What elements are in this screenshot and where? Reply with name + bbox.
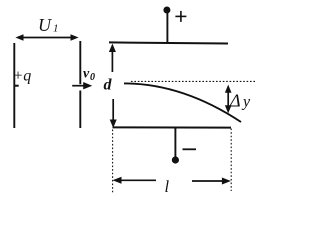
small tick on left plate bbox=[14, 85, 19, 87]
svg-text:U: U bbox=[38, 15, 52, 35]
right accelerating plate upper segment bbox=[79, 41, 81, 84]
plate length dimension l: left arrow bbox=[113, 177, 157, 184]
bottom plate terminal stub wire bbox=[174, 128, 176, 158]
svg-text:l: l bbox=[165, 177, 170, 196]
undeflected reference dotted line bbox=[131, 80, 256, 82]
svg-text:y: y bbox=[241, 93, 251, 110]
bottom deflecting plate bbox=[113, 126, 232, 128]
svg-text:0: 0 bbox=[90, 72, 95, 83]
right dotted extension line below plates bbox=[230, 129, 232, 192]
voltage U1 dimension arrow (double headed) bbox=[15, 34, 78, 41]
svg-text:Δ: Δ bbox=[229, 90, 241, 110]
left dotted extension line below plates bbox=[112, 130, 114, 195]
plate gap dimension d: upper arrow bbox=[109, 44, 116, 73]
left accelerating plate (charged +q) bbox=[13, 43, 15, 128]
bottom terminal dot bbox=[172, 156, 179, 163]
right accelerating plate lower segment bbox=[79, 91, 81, 129]
plate length dimension l: right arrow bbox=[192, 178, 231, 185]
plate gap dimension d: lower arrow bbox=[110, 99, 117, 128]
top terminal dot bbox=[163, 7, 170, 14]
velocity v0 arrow bbox=[72, 82, 92, 89]
svg-text:v: v bbox=[83, 67, 90, 82]
svg-text:d: d bbox=[104, 77, 113, 94]
svg-text:+q: +q bbox=[13, 68, 32, 85]
minus sign at bottom terminal bbox=[183, 148, 197, 150]
plus sign at top terminal bbox=[175, 11, 186, 22]
deflection dimension arrow (double headed, Delta y) bbox=[225, 85, 232, 114]
top deflecting plate bbox=[109, 42, 228, 43]
svg-text:1: 1 bbox=[53, 23, 59, 35]
top plate terminal stub wire bbox=[166, 13, 168, 43]
particle trajectory (parabola) bbox=[124, 83, 241, 122]
